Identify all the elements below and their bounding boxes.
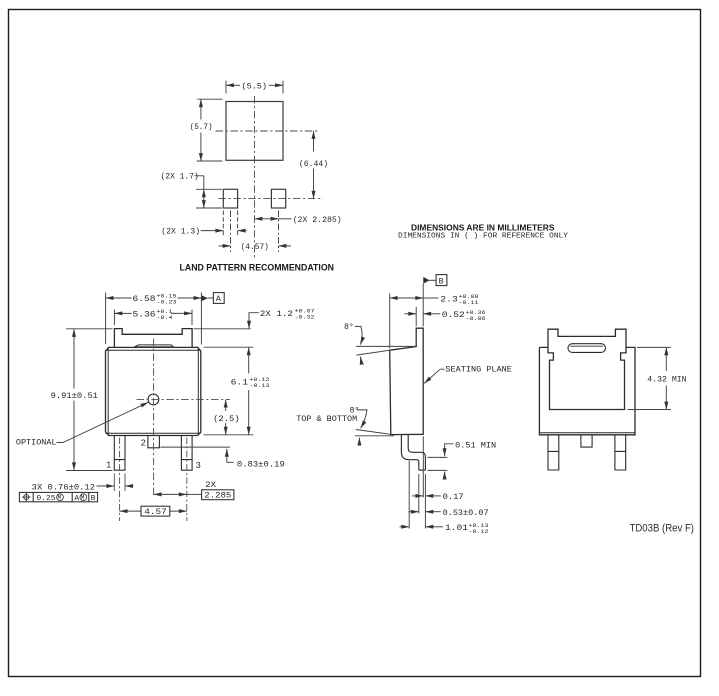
svg-text:M: M (81, 495, 85, 502)
pin 1 edge extensions below (114, 474, 125, 492)
land pattern pad square (226, 102, 283, 161)
land pattern pads horizontal centerline (219, 198, 324, 200)
svg-text:2: 2 (141, 438, 146, 448)
lead extension line foot-right (424, 474, 426, 529)
land pattern square horizontal centerline (216, 130, 319, 132)
svg-text:(2X 2.285): (2X 2.285) (293, 215, 342, 225)
land pattern vertical centerline (254, 96, 256, 260)
svg-text:OPTIONAL: OPTIONAL (16, 438, 57, 448)
rear pin center (581, 435, 592, 447)
dim (2X 1.7) extension lines (196, 189, 222, 208)
land pattern pad 1 (223, 189, 237, 208)
rear pin right (615, 435, 626, 470)
dim 0.76 arrows (97, 485, 115, 487)
dim 2X 1.2 leader (249, 313, 259, 327)
lower 8 deg leader arcs (357, 410, 367, 428)
svg-text:8°: 8° (344, 323, 354, 332)
svg-text:-0.4: -0.4 (157, 314, 174, 321)
svg-text:3: 3 (196, 461, 201, 471)
dim 9.91 extension lines (66, 329, 113, 471)
upper 8 deg slant extension (356, 350, 389, 355)
pin 1 centerline (119, 438, 121, 522)
svg-text:(2X 1.7): (2X 1.7) (161, 172, 199, 182)
side lead inner-right edge (408, 435, 425, 470)
datum A box (213, 293, 224, 304)
dim 0.52 extension line (415, 307, 417, 327)
rear tab outline (548, 329, 626, 347)
land pattern pad 2 (271, 189, 285, 208)
svg-text:0.25: 0.25 (37, 495, 56, 503)
svg-text:2.3: 2.3 (440, 294, 458, 304)
datum B stem line (422, 284, 424, 327)
svg-text:B: B (439, 277, 444, 286)
svg-text:0.52: 0.52 (442, 310, 465, 320)
lead extension line seating plane (422, 436, 424, 497)
dim (2X 1.3) pad edge extension lines (223, 211, 237, 237)
datum A triangle (201, 295, 207, 301)
svg-text:DIMENSIONS ARE IN MILLIMETERS: DIMENSIONS ARE IN MILLIMETERS (411, 222, 555, 232)
dim 0.83 leader (226, 449, 228, 463)
svg-text:(5.5): (5.5) (242, 82, 268, 92)
svg-text:-0.32: -0.32 (295, 313, 316, 320)
dim 4.57 arrows (120, 510, 141, 512)
dim 2.3 extension line (389, 294, 391, 349)
lead extension line foot-left (418, 474, 420, 514)
rear tab notches and pad (548, 347, 626, 409)
svg-text:(2.5): (2.5) (213, 414, 240, 424)
upper 8 deg reference horizontal (356, 345, 416, 347)
svg-text:-0.12: -0.12 (469, 528, 490, 535)
dim 0.17 arrows (412, 495, 423, 497)
lower 8 deg reference horizontal (355, 435, 394, 437)
dim 4.32 dimension line (665, 347, 667, 371)
lead extension line outer-left (408, 461, 410, 529)
svg-text:B: B (91, 495, 96, 503)
pin 1 front (114, 436, 125, 471)
svg-text:A: A (216, 295, 221, 304)
dim (2X 2.285) dimension line (255, 218, 279, 220)
dim (6.44) dimension line (313, 131, 315, 152)
front tab (114, 329, 192, 347)
svg-text:2X: 2X (205, 480, 216, 490)
svg-text:0.51 MIN: 0.51 MIN (455, 440, 496, 450)
dim 4.32 extension lines (628, 347, 671, 409)
front horizontal centerline (137, 398, 231, 400)
dim 5.36 extension lines (114, 310, 192, 326)
svg-text:(5.7): (5.7) (190, 122, 213, 132)
upper 8 deg leader arcs (355, 326, 362, 344)
datum B box (436, 275, 447, 286)
pin 3 centerline (186, 438, 188, 522)
body bottom extension line (204, 434, 254, 436)
dim (2.5) dimension line (225, 400, 227, 411)
svg-text:SEATING PLANE: SEATING PLANE (445, 365, 512, 375)
svg-text:6.58: 6.58 (133, 294, 156, 304)
dim 6.1 dimension line (248, 347, 250, 373)
body top extension line (204, 346, 254, 348)
dim 0.53 arrows (409, 511, 419, 513)
feature control frame box (19, 492, 97, 501)
optional leader (57, 402, 149, 442)
svg-text:4.57: 4.57 (144, 507, 167, 517)
svg-text:0.17: 0.17 (443, 492, 464, 502)
svg-text:(2X 1.3): (2X 1.3) (161, 226, 200, 236)
pin 2 front (148, 436, 160, 448)
dim 0.51 leader (445, 444, 454, 456)
pin2 bottom extension line (161, 446, 231, 448)
svg-text:9.91±0.51: 9.91±0.51 (51, 391, 98, 401)
svg-text:3X 0.76±0.12: 3X 0.76±0.12 (32, 482, 95, 492)
pin 3 front (181, 436, 192, 471)
dim 2.285 box (202, 490, 234, 500)
dim (4.57) arrows (219, 245, 231, 247)
rear slot inner line (570, 345, 603, 347)
dim (5.5) dimension line (226, 84, 240, 86)
svg-text:(6.44): (6.44) (299, 159, 328, 169)
dim 6.58 extension lines (106, 293, 202, 345)
dim 1.01 arrows (400, 526, 410, 528)
dim 0.51 reference lines (428, 457, 448, 470)
svg-text:-0.11: -0.11 (459, 299, 480, 306)
dim 2.285 dimension line (154, 493, 187, 495)
dim (4.57) pad centerline extensions (231, 211, 279, 253)
svg-text:4.32 MIN: 4.32 MIN (647, 375, 686, 385)
dim (2X 1.7) leader and arrows (194, 176, 204, 190)
svg-text:0.53±0.07: 0.53±0.07 (443, 508, 489, 518)
svg-text:-0.13: -0.13 (250, 382, 271, 389)
svg-text:(4.57): (4.57) (241, 242, 269, 252)
datum B triangle (423, 277, 429, 284)
rear body outline (539, 347, 635, 434)
rear pin left (548, 435, 559, 470)
rear slot stadium (568, 344, 606, 353)
svg-text:-0.23: -0.23 (157, 299, 178, 306)
front body outline (106, 347, 201, 435)
dim (2X 1.3) leader arrows (201, 230, 224, 232)
dim 0.52 arrows (405, 313, 417, 315)
svg-text:-0.06: -0.06 (466, 315, 487, 322)
svg-text:2.285: 2.285 (204, 491, 231, 501)
seating plane leader (424, 369, 444, 383)
optional dimple circle (148, 394, 159, 405)
svg-text:DIMENSIONS IN ( ) FOR REFEREN: DIMENSIONS IN ( ) FOR REFERENCE ONLY (398, 233, 568, 241)
svg-text:TOP & BOTTOM: TOP & BOTTOM (296, 414, 357, 424)
rear body bottom inner line (539, 432, 635, 434)
svg-text:2X 1.2: 2X 1.2 (260, 309, 293, 319)
svg-text:A: A (75, 495, 80, 503)
side lead outer-left edge (401, 435, 418, 470)
lower 8 deg slant extension (356, 430, 391, 435)
svg-text:TD03B (Rev F): TD03B (Rev F) (630, 523, 695, 535)
svg-text:5.36: 5.36 (133, 309, 156, 319)
dim (5.7) dimension line (200, 99, 202, 119)
dim 2.3 dimension line (390, 297, 424, 299)
front vertical centerline (153, 339, 155, 496)
front body inner mold lines (106, 349, 201, 435)
svg-text:LAND PATTERN RECOMMENDATION: LAND PATTERN RECOMMENDATION (180, 263, 335, 274)
dim (5.5) extension lines (226, 81, 283, 94)
svg-text:M: M (58, 495, 62, 502)
svg-text:1: 1 (106, 460, 111, 470)
dim 5.36 dimension line (114, 312, 131, 314)
dim 6.58 dimension line (106, 297, 132, 299)
dim 4.57 box (141, 506, 170, 516)
dim (5.7) extension lines (197, 99, 223, 161)
side body outline (390, 328, 424, 434)
dim 9.91 dimension line (73, 329, 75, 389)
position symbol (22, 493, 30, 501)
svg-text:6.1: 6.1 (231, 378, 249, 388)
tab top extension line (194, 328, 251, 330)
datum A leader line (207, 297, 213, 299)
svg-text:0.83±0.19: 0.83±0.19 (237, 459, 285, 469)
svg-text:1.01: 1.01 (445, 523, 468, 533)
side lead foot bottom (419, 469, 426, 471)
front mold trapezoid (134, 345, 173, 347)
datum B leader (429, 279, 436, 281)
